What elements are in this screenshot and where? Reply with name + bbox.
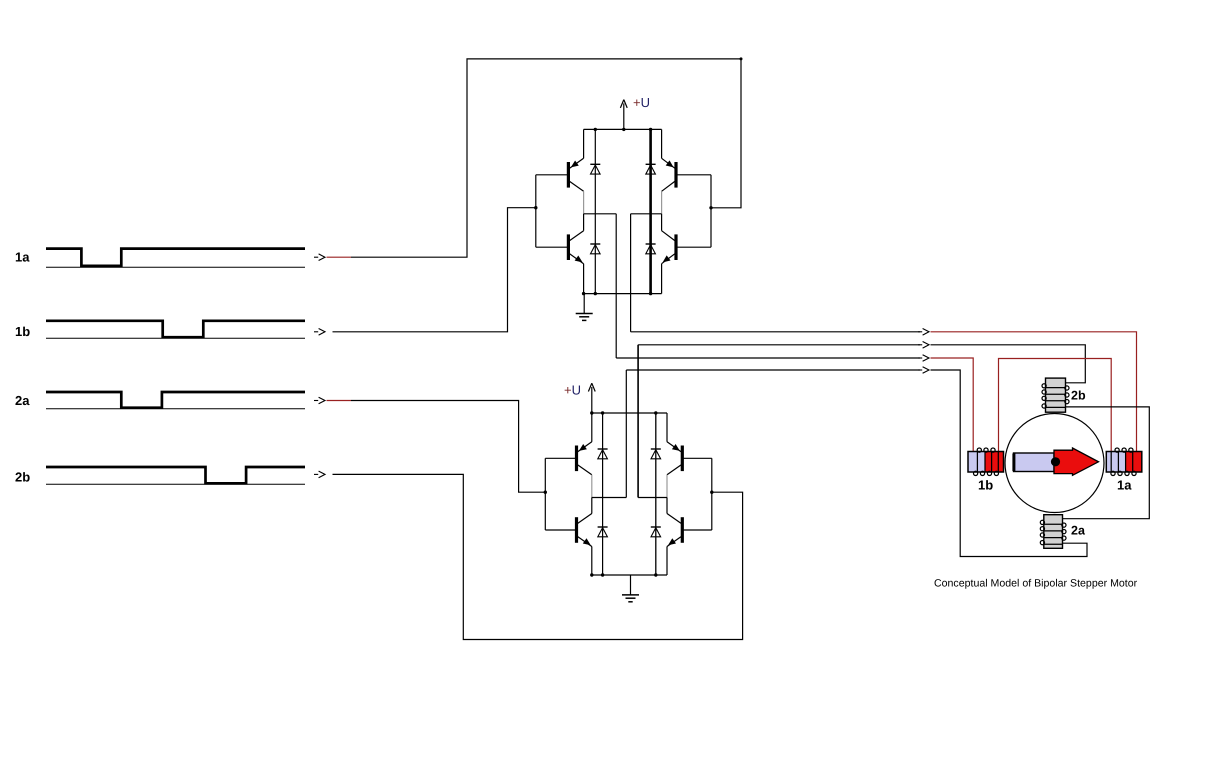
upper-right emitter stub top bridge bbox=[661, 191, 663, 214]
diode lower-right bottom bridge bbox=[651, 526, 661, 528]
junction dot 1a/base link bbox=[709, 206, 712, 209]
motor wire 4 to coil 2a bbox=[931, 370, 1088, 557]
svg-text:2a: 2a bbox=[1071, 524, 1086, 538]
waveform 2b bbox=[46, 467, 305, 483]
diode lower-left top bridge bbox=[590, 243, 600, 245]
junction dot 1b/base link bbox=[534, 206, 537, 209]
ground stem bottom bridge bbox=[630, 575, 632, 595]
lower-left collector stub bottom bridge bbox=[591, 498, 593, 514]
motor wire 1 red segment bbox=[931, 332, 1137, 451]
motor wire 1 arrow bbox=[918, 331, 922, 333]
transistor upper-left PNP top bridge bbox=[567, 162, 570, 188]
coil 2a bbox=[1044, 515, 1063, 549]
wire 1b to top bridge left bases bbox=[333, 208, 536, 332]
junction dots on emitter rail top bridge bbox=[582, 292, 585, 295]
motor wire 1 (top bridge right output) bbox=[631, 331, 920, 333]
coil 2b bbox=[1046, 378, 1066, 412]
ground symbol bottom bridge bbox=[622, 594, 639, 596]
junction dot 2a/base link bbox=[544, 491, 547, 494]
svg-text:1b: 1b bbox=[15, 324, 30, 339]
coil 1a bbox=[1106, 452, 1125, 473]
transistor lower-right NPN bottom bridge bbox=[681, 517, 684, 543]
left diode column wire bottom bridge bbox=[602, 413, 604, 575]
right diode column wire bottom bridge bbox=[655, 413, 657, 575]
svg-text:1a: 1a bbox=[15, 250, 30, 265]
bottom bridge left output riser bbox=[625, 370, 627, 498]
lower-left emitter wire top bridge bbox=[583, 264, 585, 294]
lower-left emitter wire bottom bridge bbox=[591, 547, 593, 576]
right output node wire top bridge bbox=[631, 213, 662, 215]
transistor lower-right NPN top bridge bbox=[674, 234, 677, 260]
right diode column wire top bridge bbox=[649, 129, 652, 293]
lower-right collector stub bottom bridge bbox=[666, 498, 668, 514]
wire 1a red segment bbox=[327, 256, 352, 258]
+U supply arrow top bridge bbox=[623, 103, 625, 129]
lower-right emitter wire bottom bridge bbox=[666, 547, 668, 576]
svg-text:+U: +U bbox=[633, 95, 650, 110]
svg-text:Conceptual Model of Bipolar St: Conceptual Model of Bipolar Stepper Moto… bbox=[934, 578, 1138, 590]
lower-left collector stub top bridge bbox=[583, 214, 585, 231]
transistor upper-left PNP bottom bridge bbox=[575, 446, 578, 472]
svg-text:2a: 2a bbox=[15, 393, 30, 408]
rotor arrow bbox=[1054, 448, 1099, 475]
motor wire 3 (top bridge left output) bbox=[616, 357, 920, 359]
upper-left emitter stub top bridge bbox=[583, 191, 585, 214]
input arrow 1b bbox=[314, 331, 318, 333]
svg-text:2b: 2b bbox=[1071, 389, 1086, 403]
left output node wire top bridge bbox=[584, 213, 617, 215]
input arrow 1a bbox=[314, 256, 318, 258]
waveform 2a bbox=[46, 392, 305, 408]
wire 1a to top bridge right bases bbox=[351, 59, 741, 257]
junction dots on +U rail bottom bridge bbox=[601, 411, 604, 414]
+U rail bottom bridge bbox=[592, 412, 667, 414]
lower-right emitter wire top bridge bbox=[661, 264, 663, 294]
motor wire 3 arrow bbox=[918, 357, 922, 359]
ground stem top bridge bbox=[583, 294, 585, 314]
waveform 1a bbox=[46, 249, 305, 266]
transistor lower-left NPN top bridge bbox=[567, 234, 570, 260]
ground symbol top bridge bbox=[576, 313, 593, 315]
top bridge right output riser bbox=[630, 214, 632, 332]
right output node wire bottom bridge bbox=[638, 497, 667, 499]
svg-text:1b: 1b bbox=[978, 478, 993, 493]
input arrow 2b bbox=[314, 473, 318, 475]
black link coil 2b to coil 2a bbox=[1063, 407, 1149, 519]
transistor upper-right PNP top bridge bbox=[674, 162, 677, 188]
upper-left collector wire top bridge bbox=[583, 129, 585, 158]
upper-right collector wire bottom bridge bbox=[666, 413, 668, 442]
svg-text:+U: +U bbox=[564, 383, 581, 398]
rotor pivot dot bbox=[1051, 457, 1060, 466]
junction dots on emitter rail bottom bridge bbox=[590, 573, 593, 576]
coil 1b bbox=[968, 452, 985, 473]
upper-left collector wire bottom bridge bbox=[591, 413, 593, 442]
motor wire 3 red segment bbox=[931, 358, 974, 451]
motor wire 2 to coil 2b bbox=[931, 345, 1086, 383]
right base link wire top bridge bbox=[710, 175, 712, 247]
diode upper-left top bridge bbox=[590, 163, 600, 165]
emitter rail top bridge bbox=[584, 293, 662, 295]
motor stator circle bbox=[1005, 414, 1104, 513]
+U rail top bridge bbox=[584, 128, 662, 130]
left diode column wire top bridge bbox=[594, 129, 596, 293]
right base link wire bottom bridge bbox=[711, 458, 713, 530]
motor wire 4 (bottom bridge left output) bbox=[626, 369, 920, 371]
rotor body bbox=[1014, 453, 1055, 472]
diode lower-left bottom bridge bbox=[598, 526, 608, 528]
wire 2a to bottom bridge left bases bbox=[351, 401, 545, 493]
wire 2b to bottom bridge right bases bbox=[333, 474, 743, 639]
red link coil 1b to coil 1a bbox=[999, 359, 1112, 452]
wire 2a red segment bbox=[327, 400, 352, 402]
corner nub top-right bbox=[740, 57, 743, 60]
upper-right collector wire top bridge bbox=[661, 129, 663, 158]
diode upper-left bottom bridge bbox=[598, 448, 608, 450]
waveform 1b bbox=[46, 321, 305, 337]
motor wire 2 (bottom bridge right output) bbox=[638, 344, 920, 346]
upper-right emitter stub bottom bridge bbox=[666, 475, 668, 498]
transistor lower-left NPN bottom bridge bbox=[575, 517, 578, 543]
left base link wire top bridge bbox=[535, 175, 537, 247]
diode upper-right bottom bridge bbox=[651, 448, 661, 450]
left output node wire bottom bridge bbox=[592, 497, 627, 499]
motor wire 2 arrow bbox=[918, 344, 922, 346]
+U supply arrow bottom bridge bbox=[591, 387, 593, 413]
diode upper-right top bridge bbox=[646, 163, 656, 165]
left base link wire bottom bridge bbox=[544, 458, 546, 530]
transistor upper-right PNP bottom bridge bbox=[681, 446, 684, 472]
svg-text:1a: 1a bbox=[1117, 478, 1132, 493]
junction dots on +U rail top bridge bbox=[594, 128, 597, 131]
motor wire 4 arrow bbox=[918, 369, 922, 371]
diode lower-right top bridge bbox=[646, 243, 656, 245]
lower-right collector stub top bridge bbox=[661, 214, 663, 231]
svg-text:2b: 2b bbox=[15, 470, 30, 485]
upper-left emitter stub bottom bridge bbox=[591, 475, 593, 498]
top bridge left output riser bbox=[615, 214, 617, 358]
input arrow 2a bbox=[314, 400, 318, 402]
junction dot 2b/base link bbox=[710, 491, 713, 494]
bottom bridge right output riser bbox=[637, 345, 639, 498]
emitter rail bottom bridge bbox=[592, 574, 667, 576]
